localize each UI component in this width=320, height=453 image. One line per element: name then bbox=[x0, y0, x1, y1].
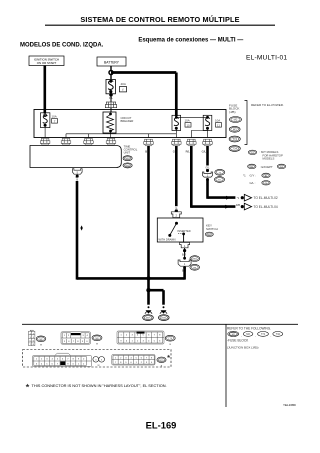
svg-text:REFER TO EL-POWER.: REFER TO EL-POWER. bbox=[251, 103, 284, 107]
svg-text:1: 1 bbox=[78, 364, 79, 366]
svg-text:7: 7 bbox=[115, 362, 116, 364]
svg-text:2: 2 bbox=[68, 335, 69, 337]
svg-text:*1: *1 bbox=[243, 174, 246, 178]
svg-text:8: 8 bbox=[159, 334, 160, 336]
svg-text:UNIT: UNIT bbox=[124, 151, 131, 155]
svg-text:1: 1 bbox=[115, 358, 116, 360]
svg-text:BATTERY: BATTERY bbox=[104, 60, 120, 64]
svg-text:6: 6 bbox=[52, 364, 53, 366]
svg-text:: EXCEPT: : EXCEPT bbox=[260, 165, 273, 169]
svg-text:6: 6 bbox=[33, 341, 34, 343]
svg-text:4: 4 bbox=[41, 364, 42, 366]
svg-text:9: 9 bbox=[82, 341, 83, 343]
svg-text:T34: T34 bbox=[232, 147, 237, 151]
svg-text:2: 2 bbox=[126, 334, 127, 336]
svg-text:G: G bbox=[173, 150, 175, 154]
svg-text:7: 7 bbox=[73, 341, 74, 343]
svg-text:SISTEMA DE CONTROL REMOTO MÚLT: SISTEMA DE CONTROL REMOTO MÚLTIPLE bbox=[80, 15, 239, 24]
svg-text:BREAKER: BREAKER bbox=[121, 119, 134, 123]
svg-text:1: 1 bbox=[136, 362, 137, 364]
svg-text:8: 8 bbox=[73, 359, 74, 361]
svg-text:7: 7 bbox=[67, 359, 68, 361]
svg-text:9: 9 bbox=[125, 362, 126, 364]
svg-text:G/L: G/L bbox=[202, 150, 207, 154]
svg-text:2: 2 bbox=[141, 362, 142, 364]
svg-text:,: , bbox=[241, 333, 242, 337]
svg-text:4: 4 bbox=[87, 335, 88, 337]
svg-text:3: 3 bbox=[146, 362, 147, 364]
svg-text:6: 6 bbox=[141, 358, 142, 360]
svg-text:3: 3 bbox=[30, 337, 31, 339]
svg-text:4: 4 bbox=[137, 334, 138, 336]
svg-text:f: f bbox=[123, 88, 124, 92]
svg-text:YEL168D: YEL168D bbox=[283, 403, 297, 407]
svg-text:MODELS: MODELS bbox=[263, 156, 275, 160]
svg-text:EL-MULTI-01: EL-MULTI-01 bbox=[246, 55, 287, 62]
svg-text:0: 0 bbox=[126, 340, 127, 342]
svg-text:8: 8 bbox=[151, 358, 152, 360]
svg-text:3: 3 bbox=[125, 358, 126, 360]
svg-text:2: 2 bbox=[33, 333, 34, 335]
svg-text:7: 7 bbox=[57, 364, 58, 366]
svg-text:9: 9 bbox=[78, 359, 79, 361]
svg-text:R/B: R/B bbox=[236, 204, 241, 207]
svg-text:4: 4 bbox=[151, 362, 152, 364]
svg-text:(JUNCTION BOX (J/B)): (JUNCTION BOX (J/B)) bbox=[227, 346, 259, 350]
svg-text:R/L: R/L bbox=[186, 150, 191, 154]
svg-text:5: 5 bbox=[57, 359, 58, 361]
svg-text:(J/B): (J/B) bbox=[229, 110, 236, 114]
svg-text:,: , bbox=[255, 333, 256, 337]
svg-text:6: 6 bbox=[159, 340, 160, 342]
svg-text:M2: M2 bbox=[234, 118, 238, 122]
svg-text:4: 4 bbox=[52, 359, 53, 361]
svg-text:3: 3 bbox=[36, 364, 37, 366]
svg-text:0: 0 bbox=[73, 364, 74, 366]
svg-text:5: 5 bbox=[143, 334, 144, 336]
svg-text:5: 5 bbox=[154, 340, 155, 342]
svg-text:0: 0 bbox=[83, 359, 84, 361]
svg-text:ON OR START: ON OR START bbox=[37, 61, 57, 65]
svg-text:T34: T34 bbox=[276, 333, 281, 336]
svg-text:11: 11 bbox=[217, 123, 220, 127]
svg-text:8: 8 bbox=[120, 362, 121, 364]
svg-text:3: 3 bbox=[46, 359, 47, 361]
svg-text:4: 4 bbox=[130, 358, 131, 360]
svg-text:9: 9 bbox=[67, 364, 68, 366]
svg-text:4: 4 bbox=[33, 337, 34, 339]
svg-text:2: 2 bbox=[137, 340, 138, 342]
svg-text:THIS CONNECTOR IS NOT SHOWN IN: THIS CONNECTOR IS NOT SHOWN IN "HARNESS … bbox=[32, 383, 167, 388]
svg-text:5: 5 bbox=[46, 364, 47, 366]
svg-text:7: 7 bbox=[30, 344, 31, 346]
svg-text:MODELOS DE COND. IZQDA.: MODELOS DE COND. IZQDA. bbox=[20, 42, 104, 48]
svg-text:10: 10 bbox=[186, 123, 190, 127]
svg-text:0: 0 bbox=[130, 362, 131, 364]
svg-text:10A: 10A bbox=[52, 115, 57, 119]
svg-text:3: 3 bbox=[82, 335, 83, 337]
svg-text:10A: 10A bbox=[185, 118, 190, 122]
svg-text:WITH DRAWN: WITH DRAWN bbox=[159, 238, 176, 242]
svg-text:-FUSE BLOCK: -FUSE BLOCK bbox=[227, 339, 249, 343]
svg-text:10A: 10A bbox=[215, 118, 220, 122]
svg-text:TO EL-MULTI-04: TO EL-MULTI-04 bbox=[254, 205, 278, 209]
svg-text:2: 2 bbox=[83, 364, 84, 366]
svg-text:2: 2 bbox=[41, 359, 42, 361]
svg-text:T74: T74 bbox=[261, 333, 266, 336]
svg-text:REFER TO THE FOLLOWING.: REFER TO THE FOLLOWING. bbox=[227, 326, 271, 330]
svg-text:1: 1 bbox=[64, 335, 65, 337]
svg-text:8: 8 bbox=[33, 344, 34, 346]
svg-text:4: 4 bbox=[148, 340, 149, 342]
svg-text:5: 5 bbox=[136, 358, 137, 360]
svg-text:8: 8 bbox=[62, 364, 63, 366]
svg-text:8: 8 bbox=[77, 341, 78, 343]
svg-text:1: 1 bbox=[30, 333, 31, 335]
svg-text:M3: M3 bbox=[233, 127, 237, 131]
svg-text:Esquema de conexiones — MULTI: Esquema de conexiones — MULTI — bbox=[138, 37, 243, 43]
svg-text:6: 6 bbox=[148, 334, 149, 336]
svg-text:1: 1 bbox=[132, 340, 133, 342]
svg-text:5: 5 bbox=[64, 341, 65, 343]
svg-text:G/Y :: G/Y : bbox=[250, 174, 257, 178]
svg-text:SWITCH: SWITCH bbox=[206, 227, 218, 231]
svg-text:6: 6 bbox=[68, 341, 69, 343]
svg-text:7: 7 bbox=[146, 358, 147, 360]
svg-text:1: 1 bbox=[36, 359, 37, 361]
svg-text:0: 0 bbox=[86, 341, 87, 343]
svg-text:3: 3 bbox=[143, 340, 144, 342]
svg-text:EL-169: EL-169 bbox=[146, 419, 177, 430]
svg-text:T74: T74 bbox=[232, 137, 237, 141]
svg-text:6: 6 bbox=[62, 359, 63, 361]
svg-text:9: 9 bbox=[120, 340, 121, 342]
svg-text:B/R: B/R bbox=[182, 254, 186, 257]
svg-text:2: 2 bbox=[120, 358, 121, 360]
svg-text:5: 5 bbox=[30, 341, 31, 343]
svg-text:1: 1 bbox=[120, 334, 121, 336]
svg-text:7: 7 bbox=[154, 334, 155, 336]
svg-text:40A: 40A bbox=[121, 82, 126, 86]
svg-text:TO EL-MULTI-02: TO EL-MULTI-02 bbox=[254, 196, 278, 200]
svg-text:B: B bbox=[145, 150, 147, 154]
svg-text:G/L :: G/L : bbox=[250, 181, 256, 185]
svg-text:3: 3 bbox=[132, 334, 133, 336]
